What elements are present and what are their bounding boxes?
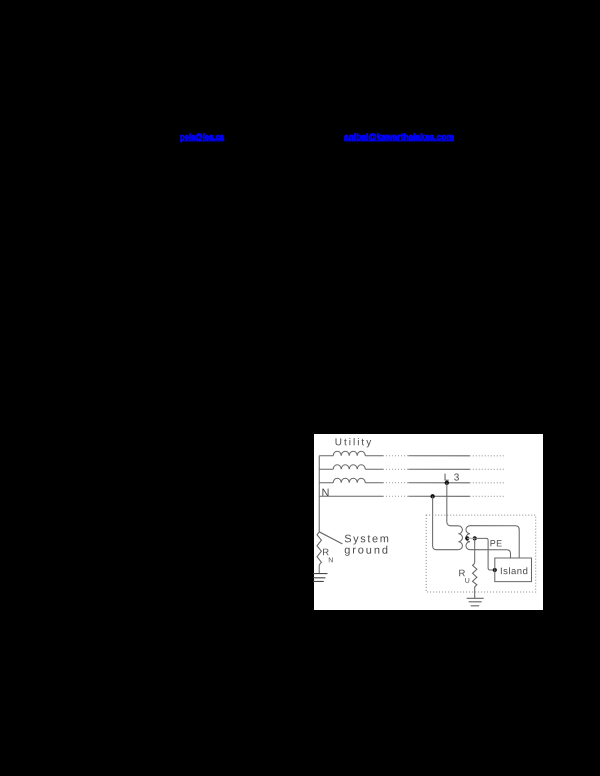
svg-text:Island: Island <box>500 566 528 577</box>
leader line to System ground label <box>319 532 342 544</box>
wire: phase line L2 <box>319 468 333 470</box>
svg-text:N: N <box>322 487 330 499</box>
wire: phase line L3 <box>319 482 333 484</box>
svg-text:ground: ground <box>344 545 390 557</box>
transformer secondary winding <box>466 526 470 550</box>
node: tap junction <box>473 536 477 540</box>
wire: neutral line N <box>319 495 383 497</box>
email link 2 <box>344 132 454 142</box>
resistor RU <box>472 563 476 587</box>
svg-text:U: U <box>465 578 470 585</box>
resistor RN <box>317 532 321 565</box>
figure panel <box>313 434 543 610</box>
svg-text:System: System <box>344 533 390 545</box>
node: N tap <box>430 494 434 498</box>
ground (utility island) <box>467 598 484 606</box>
wire: N tap down to transformer primary bottom <box>433 496 459 549</box>
wire: junction down to RU <box>474 538 476 563</box>
box Island <box>495 558 532 582</box>
wire: RN to ground <box>318 565 320 574</box>
transformer primary winding <box>458 526 462 550</box>
wire: secondary bottom to island drop <box>470 550 511 558</box>
dashed enclosure box <box>426 515 536 592</box>
wire: secondary top to island right drop <box>470 526 519 558</box>
node: center tap on winding <box>465 536 469 540</box>
inductor L2 coil <box>333 465 365 470</box>
node: L3 tap <box>445 481 449 485</box>
node: island left terminal <box>493 568 497 572</box>
svg-text:Utility: Utility <box>335 437 373 448</box>
email link 1 <box>180 132 225 142</box>
ground (system) <box>313 574 327 582</box>
wire: tap link <box>467 537 475 539</box>
inductor L3 coil <box>333 478 365 483</box>
wire: L3 tap down to transformer primary top <box>447 483 459 526</box>
svg-text:N: N <box>328 557 333 564</box>
wire: RU to ground <box>474 587 476 599</box>
svg-text:PE: PE <box>490 538 503 548</box>
inductor L1 coil <box>333 451 365 456</box>
wire: phase line L1 <box>319 455 333 457</box>
wire: left bus vertical <box>318 456 320 532</box>
wire: PE run to island left <box>475 538 495 570</box>
